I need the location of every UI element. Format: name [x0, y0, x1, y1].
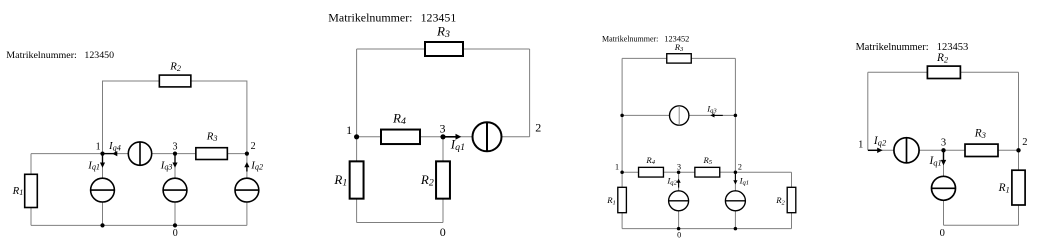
- wire: [102, 202, 104, 225]
- wire: [102, 154, 104, 179]
- wire: [356, 199, 358, 223]
- svg-text:R5: R5: [702, 155, 712, 166]
- svg-text:2: 2: [1022, 137, 1027, 148]
- svg-text:0: 0: [940, 228, 945, 239]
- wire: [664, 171, 679, 173]
- current arrow I_q1 (circuit 4): [928, 152, 946, 168]
- current source I_q3 (circuit 1): [163, 178, 187, 202]
- svg-text:3: 3: [677, 163, 681, 172]
- wire: [152, 153, 196, 155]
- wire: [357, 222, 443, 224]
- wire: [1018, 205, 1020, 225]
- svg-text:R1: R1: [998, 182, 1010, 195]
- resistor R2 (circuit 1): [159, 60, 191, 87]
- current arrow I_q2 (circuit 3): [666, 176, 680, 188]
- resistor R1 (circuit 2): [333, 161, 363, 198]
- wire: [174, 202, 176, 225]
- svg-text:R2: R2: [420, 172, 434, 189]
- svg-text:1: 1: [615, 163, 619, 172]
- wire: [103, 153, 129, 155]
- svg-text:3: 3: [173, 142, 178, 153]
- node 3 (circuit 3): [677, 163, 681, 174]
- current source I_q2 (circuit 4): [894, 138, 919, 163]
- svg-text:R1: R1: [12, 185, 24, 197]
- wire: [791, 213, 793, 229]
- current source I_q4 (circuit 1): [128, 142, 151, 165]
- svg-text:Iq1: Iq1: [87, 159, 100, 171]
- wire: [463, 48, 530, 50]
- svg-text:Iq1: Iq1: [928, 155, 941, 168]
- wire: [356, 49, 358, 137]
- wire: [943, 150, 945, 176]
- wire: [720, 171, 736, 173]
- node junction (circuit 1): [100, 223, 104, 227]
- wire: [228, 153, 247, 155]
- wire: [246, 202, 248, 225]
- svg-text:R3: R3: [436, 23, 450, 40]
- wire: [103, 81, 160, 154]
- wire: [356, 137, 358, 162]
- wire: [442, 199, 444, 223]
- wire: [1018, 150, 1020, 170]
- wire: [174, 154, 176, 179]
- wire: [735, 171, 791, 173]
- wire: [998, 149, 1019, 151]
- resistor R3 (circuit 4): [965, 128, 998, 157]
- node 0 (circuit 3): [677, 227, 681, 240]
- svg-text:0: 0: [677, 230, 681, 239]
- node 1 (circuit 3): [615, 163, 624, 174]
- current arrow I_q2 (circuit 1): [244, 159, 263, 171]
- svg-text:0: 0: [173, 228, 178, 239]
- svg-text:Iq3: Iq3: [160, 159, 173, 171]
- current source I_q1 (circuit 4): [932, 176, 956, 200]
- wire: [502, 136, 530, 138]
- svg-text:Iq1: Iq1: [739, 176, 750, 187]
- resistor R2 (circuit 3): [775, 187, 796, 212]
- svg-text:2: 2: [535, 120, 541, 134]
- svg-text:1: 1: [346, 123, 352, 137]
- wire: [679, 171, 695, 173]
- node 3 (circuit 4): [941, 137, 946, 152]
- wire: [622, 57, 667, 59]
- node junction c (circuit 3): [734, 227, 738, 231]
- current source I_q3 (circuit 3): [670, 106, 689, 125]
- resistor R3 (circuit 2): [425, 23, 463, 56]
- resistor R2 (circuit 4): [927, 52, 960, 78]
- resistor R4 (circuit 3): [639, 155, 664, 177]
- current arrow I_q1 (circuit 1): [87, 155, 105, 172]
- wire: [1018, 72, 1020, 150]
- resistor R2 (circuit 2): [420, 161, 450, 198]
- wire: [678, 172, 680, 191]
- svg-text:R4: R4: [645, 155, 655, 166]
- wire: [678, 211, 680, 229]
- node 3 (circuit 2): [440, 121, 446, 139]
- node 2 (circuit 3): [734, 163, 742, 174]
- wire: [357, 136, 381, 138]
- node junction a (circuit 3): [620, 114, 624, 118]
- svg-text:R3: R3: [206, 131, 218, 143]
- wire: [791, 172, 793, 187]
- svg-text:R2: R2: [936, 52, 949, 64]
- node 2 (circuit 1): [245, 141, 256, 156]
- wire: [443, 136, 473, 138]
- wire: [30, 208, 32, 226]
- svg-text:Matrikelnummer:123453: Matrikelnummer:123453: [856, 42, 969, 53]
- node junction b (circuit 3): [734, 114, 738, 118]
- wire: [734, 211, 736, 229]
- svg-text:2: 2: [738, 163, 742, 172]
- resistor R5 (circuit 3): [695, 155, 720, 177]
- current source I_q1 (circuit 1): [91, 178, 115, 202]
- wire: [867, 72, 869, 150]
- svg-text:Matrikelnummer:123450: Matrikelnummer:123450: [6, 50, 114, 61]
- svg-text:Iq4: Iq4: [108, 140, 121, 152]
- wire: [442, 137, 444, 162]
- wire: [944, 149, 966, 151]
- current source I_q1 (circuit 2): [473, 122, 502, 151]
- node 3 (circuit 1): [173, 142, 178, 156]
- wire: [689, 114, 736, 116]
- svg-text:R4: R4: [392, 110, 406, 127]
- wire: [246, 154, 248, 179]
- svg-text:1: 1: [858, 139, 863, 150]
- wire: [734, 58, 736, 190]
- svg-text:0: 0: [440, 225, 446, 239]
- wire: [622, 171, 639, 173]
- node 2 (circuit 4): [1016, 137, 1027, 152]
- wire: [868, 149, 894, 151]
- wire: [420, 136, 443, 138]
- current arrow I_q1 (circuit 2): [443, 134, 465, 153]
- wire: [691, 57, 735, 59]
- wire: [622, 228, 791, 230]
- resistor R1 (circuit 1): [12, 174, 38, 207]
- wire: [621, 58, 623, 187]
- svg-text:3: 3: [941, 137, 946, 148]
- svg-text:2: 2: [251, 141, 256, 152]
- wire: [622, 114, 669, 116]
- wire: [31, 153, 103, 155]
- current source I_q1 (circuit 3): [725, 191, 745, 211]
- svg-text:1: 1: [96, 142, 101, 153]
- svg-text:Iq2: Iq2: [873, 135, 887, 148]
- node 1 (circuit 1): [96, 142, 105, 156]
- current arrow I_q4 (circuit 1): [103, 140, 121, 156]
- svg-text:R2: R2: [775, 195, 785, 206]
- svg-text:Iq3: Iq3: [706, 103, 717, 114]
- current arrow I_q2 (circuit 4): [868, 135, 887, 153]
- current arrow I_q3 (circuit 1): [160, 155, 178, 172]
- wire: [919, 149, 943, 151]
- svg-text:R3: R3: [974, 128, 986, 141]
- wire: [960, 71, 1018, 73]
- wire: [943, 200, 945, 225]
- current arrow I_q3 (circuit 3): [706, 103, 723, 117]
- wire: [30, 154, 32, 175]
- resistor R1 (circuit 3): [606, 187, 626, 212]
- wire: [191, 81, 247, 154]
- resistor R3 (circuit 3): [667, 42, 692, 63]
- svg-text:3: 3: [440, 121, 446, 135]
- wire: [31, 224, 247, 226]
- current arrow I_q1 (circuit 3): [733, 173, 749, 186]
- wire: [357, 48, 425, 50]
- resistor R3 (circuit 1): [196, 131, 228, 160]
- node 1 (circuit 2): [346, 123, 359, 140]
- current source I_q2 (circuit 1): [235, 178, 259, 202]
- resistor R1 (circuit 4): [998, 170, 1026, 205]
- svg-text:R2: R2: [169, 60, 181, 72]
- current source I_q2 (circuit 3): [669, 191, 689, 211]
- wire: [944, 224, 1019, 226]
- resistor R4 (circuit 2): [381, 110, 420, 144]
- wire: [621, 213, 623, 229]
- svg-text:Iq2: Iq2: [250, 159, 263, 171]
- wire: [868, 71, 928, 73]
- svg-text:R1: R1: [333, 172, 347, 189]
- wire: [529, 49, 531, 137]
- svg-text:R1: R1: [606, 195, 616, 206]
- svg-text:Iq2: Iq2: [666, 176, 677, 187]
- node 0 (circuit 1): [173, 223, 178, 239]
